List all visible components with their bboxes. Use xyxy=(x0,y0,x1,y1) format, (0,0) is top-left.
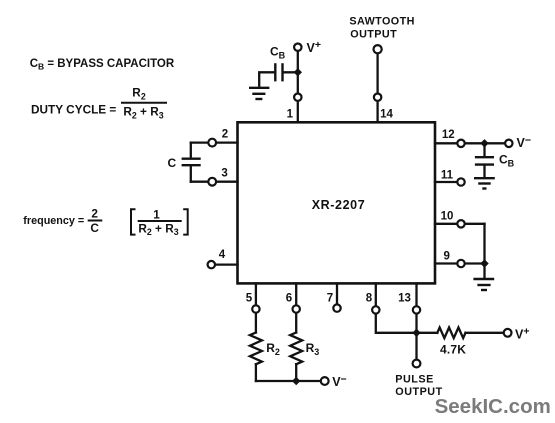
terminal pin 14 xyxy=(374,94,381,101)
wire pin4 horizontal xyxy=(216,263,238,265)
wire pin6 vertical xyxy=(295,284,297,305)
terminal V- bottom xyxy=(321,377,329,385)
wire pin8 vertical xyxy=(375,284,377,306)
wire pin2 horizontal xyxy=(191,141,238,143)
terminal pin 5 xyxy=(252,305,259,312)
wire CB right plate to junction xyxy=(284,71,298,73)
svg-text:XR-2207: XR-2207 xyxy=(312,198,366,212)
op-amp U1 body XR-2207 xyxy=(238,122,436,283)
terminal V- right xyxy=(505,140,512,147)
svg-text:frequency =: frequency = xyxy=(23,215,84,227)
svg-text:DUTY CYCLE =: DUTY CYCLE = xyxy=(31,103,116,117)
svg-text:2: 2 xyxy=(222,129,228,141)
wire CB2 to ground xyxy=(483,166,485,177)
svg-text:2: 2 xyxy=(91,207,98,221)
svg-text:9: 9 xyxy=(443,250,449,262)
wire pin7 vertical xyxy=(336,284,338,304)
terminal pin 11 xyxy=(457,178,464,185)
formula frequency xyxy=(23,207,187,238)
resistor R2 xyxy=(250,333,262,365)
svg-text:8: 8 xyxy=(366,293,373,305)
svg-text:10: 10 xyxy=(441,210,454,222)
terminal pin 9 xyxy=(457,260,464,267)
svg-text:3: 3 xyxy=(221,167,227,179)
svg-text:11: 11 xyxy=(441,170,454,182)
wire resistor to V+ xyxy=(466,332,504,334)
terminal sawtooth output xyxy=(374,45,382,53)
wire R2 to bottom rail xyxy=(255,364,257,381)
terminal pin 1 xyxy=(294,94,301,101)
wire pin5 vertical xyxy=(255,284,257,305)
svg-text:SeekIC.com: SeekIC.com xyxy=(435,395,551,418)
wire pin9 junction to ground xyxy=(483,264,485,278)
wire R3 to bottom rail xyxy=(295,364,297,381)
svg-text:C: C xyxy=(90,221,99,235)
svg-text:R2 + R3: R2 + R3 xyxy=(123,105,163,121)
svg-text:PULSE: PULSE xyxy=(395,374,434,386)
ground under pin9 xyxy=(473,279,494,290)
svg-text:CB = BYPASS CAPACITOR: CB = BYPASS CAPACITOR xyxy=(30,58,175,72)
wire junction to CB2 xyxy=(483,147,485,156)
ground under CB top-left xyxy=(249,88,269,99)
wire pin10 down to pin9 xyxy=(483,224,485,264)
net label PULSE OUTPUT xyxy=(395,374,442,399)
wire pin11 horizontal xyxy=(435,181,457,183)
wire pin3 horizontal xyxy=(191,181,238,183)
wire pin14 to IC xyxy=(376,102,378,122)
wire pin10 horizontal xyxy=(435,223,485,225)
junction node pin9 xyxy=(480,259,488,267)
wire sawtooth to pin14 xyxy=(376,54,378,93)
svg-text:6: 6 xyxy=(286,293,292,305)
svg-text:R2 + R3: R2 + R3 xyxy=(138,221,178,237)
ground under CB right xyxy=(474,178,495,188)
wire left branch lower xyxy=(190,166,192,181)
wire pin5 to R2 xyxy=(255,313,257,332)
svg-text:14: 14 xyxy=(380,109,393,121)
svg-text:5: 5 xyxy=(246,293,253,305)
resistor R4 4.7K xyxy=(437,328,465,339)
junction node pin8/13 xyxy=(412,329,420,337)
wire V+ to pin1 xyxy=(297,52,299,93)
svg-text:C: C xyxy=(168,156,177,170)
formula duty cycle xyxy=(31,86,167,121)
wire bottom rail to V- xyxy=(256,380,320,382)
capacitor C xyxy=(182,159,201,166)
capacitor CB top-left xyxy=(275,63,282,81)
terminal pin 12 xyxy=(457,140,464,147)
wire junction to resistor 4.7K xyxy=(417,332,438,334)
terminal pulse output xyxy=(413,360,421,368)
wire CB left plate to ground xyxy=(259,72,274,85)
svg-text:4: 4 xyxy=(219,249,226,261)
wire left branch upper xyxy=(190,143,192,158)
svg-text:1: 1 xyxy=(287,109,294,121)
wire pin13 down to pulse output xyxy=(415,314,417,359)
wire pin8 to junction xyxy=(376,314,417,333)
wire pin12 horizontal xyxy=(435,142,504,144)
terminal pin 4 xyxy=(208,261,215,268)
terminal pin 7 xyxy=(333,304,340,311)
svg-text:4.7K: 4.7K xyxy=(440,343,466,357)
svg-text:13: 13 xyxy=(398,293,411,305)
svg-text:SAWTOOTH: SAWTOOTH xyxy=(349,16,414,28)
terminal pin 10 xyxy=(457,220,464,227)
junction node pin12/CB xyxy=(480,139,488,147)
terminal pin 8 xyxy=(372,306,379,313)
svg-text:7: 7 xyxy=(327,293,333,305)
terminal V+ top xyxy=(294,44,301,51)
terminal pin 13 xyxy=(413,306,420,313)
svg-text:OUTPUT: OUTPUT xyxy=(350,29,397,41)
svg-text:1: 1 xyxy=(153,207,160,221)
terminal V+ bottom right xyxy=(504,329,512,337)
capacitor CB right xyxy=(475,157,494,164)
junction node R3 bottom xyxy=(292,377,300,385)
wire pin13 vertical xyxy=(415,284,417,306)
wire pin6 to R3 xyxy=(295,313,297,332)
terminal pin 6 xyxy=(293,305,300,312)
svg-text:12: 12 xyxy=(442,129,455,141)
resistor R3 xyxy=(290,333,302,365)
wire pin1 to IC xyxy=(297,102,299,122)
terminal pin 2 xyxy=(208,139,216,147)
terminal pin 3 xyxy=(208,178,216,186)
net label SAWTOOTH OUTPUT xyxy=(349,16,414,41)
wire pin9 horizontal xyxy=(435,262,485,264)
junction node at pin1/CB xyxy=(294,68,302,76)
